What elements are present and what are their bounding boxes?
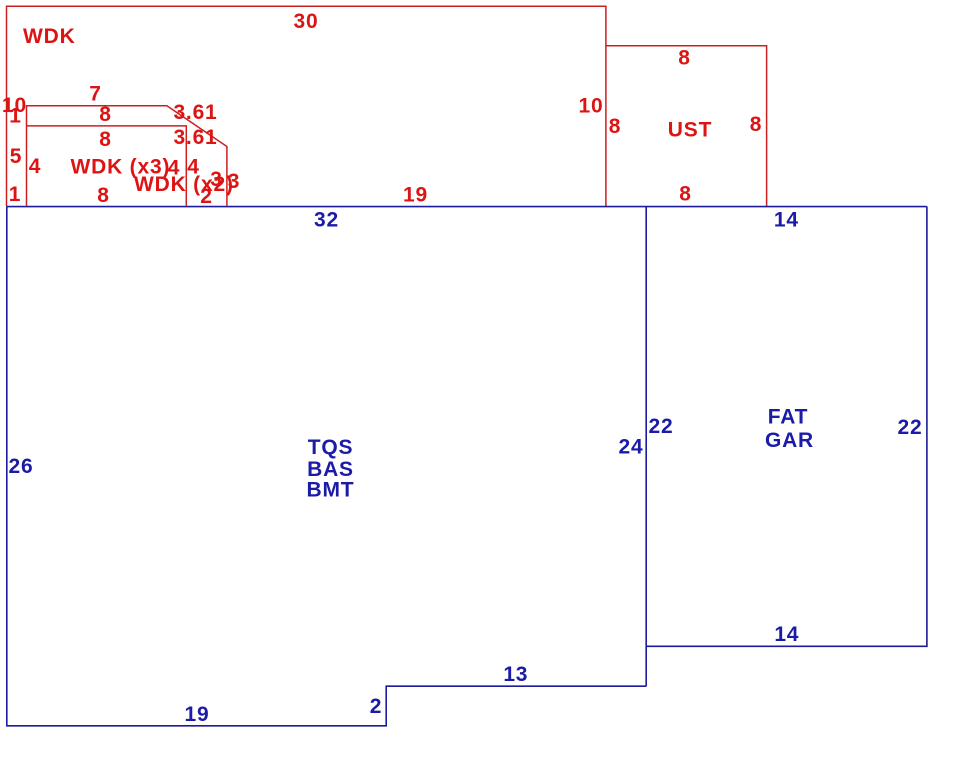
svg-text:4: 4 [29, 155, 41, 178]
svg-text:8: 8 [97, 184, 109, 207]
svg-text:8: 8 [678, 47, 690, 70]
svg-text:3.61: 3.61 [173, 101, 217, 124]
svg-text:FAT: FAT [768, 406, 809, 429]
svg-text:30: 30 [294, 10, 319, 33]
svg-text:32: 32 [314, 209, 339, 232]
svg-text:2: 2 [370, 695, 382, 718]
svg-text:2: 2 [200, 185, 212, 208]
svg-text:19: 19 [403, 184, 428, 207]
svg-text:WDK: WDK [23, 25, 76, 48]
svg-text:5: 5 [10, 145, 22, 168]
svg-text:3.61: 3.61 [173, 126, 217, 149]
svg-text:8: 8 [99, 128, 111, 151]
svg-text:24: 24 [619, 436, 644, 459]
svg-text:UST: UST [668, 119, 712, 142]
svg-text:GAR: GAR [765, 429, 814, 452]
svg-text:1: 1 [9, 183, 21, 206]
svg-text:14: 14 [774, 623, 799, 646]
svg-text:22: 22 [898, 416, 923, 439]
svg-text:10: 10 [579, 95, 604, 118]
svg-text:8: 8 [99, 103, 111, 126]
svg-text:22: 22 [649, 415, 674, 438]
svg-text:3: 3 [228, 170, 240, 193]
svg-text:19: 19 [185, 703, 210, 726]
svg-text:8: 8 [679, 183, 691, 206]
svg-text:14: 14 [774, 208, 799, 231]
svg-text:13: 13 [503, 663, 528, 686]
svg-text:8: 8 [609, 115, 621, 138]
svg-text:1: 1 [9, 105, 21, 128]
svg-text:BMT: BMT [307, 479, 355, 502]
svg-text:TQS: TQS [308, 436, 354, 459]
svg-text:8: 8 [750, 113, 762, 136]
svg-text:26: 26 [9, 455, 34, 478]
